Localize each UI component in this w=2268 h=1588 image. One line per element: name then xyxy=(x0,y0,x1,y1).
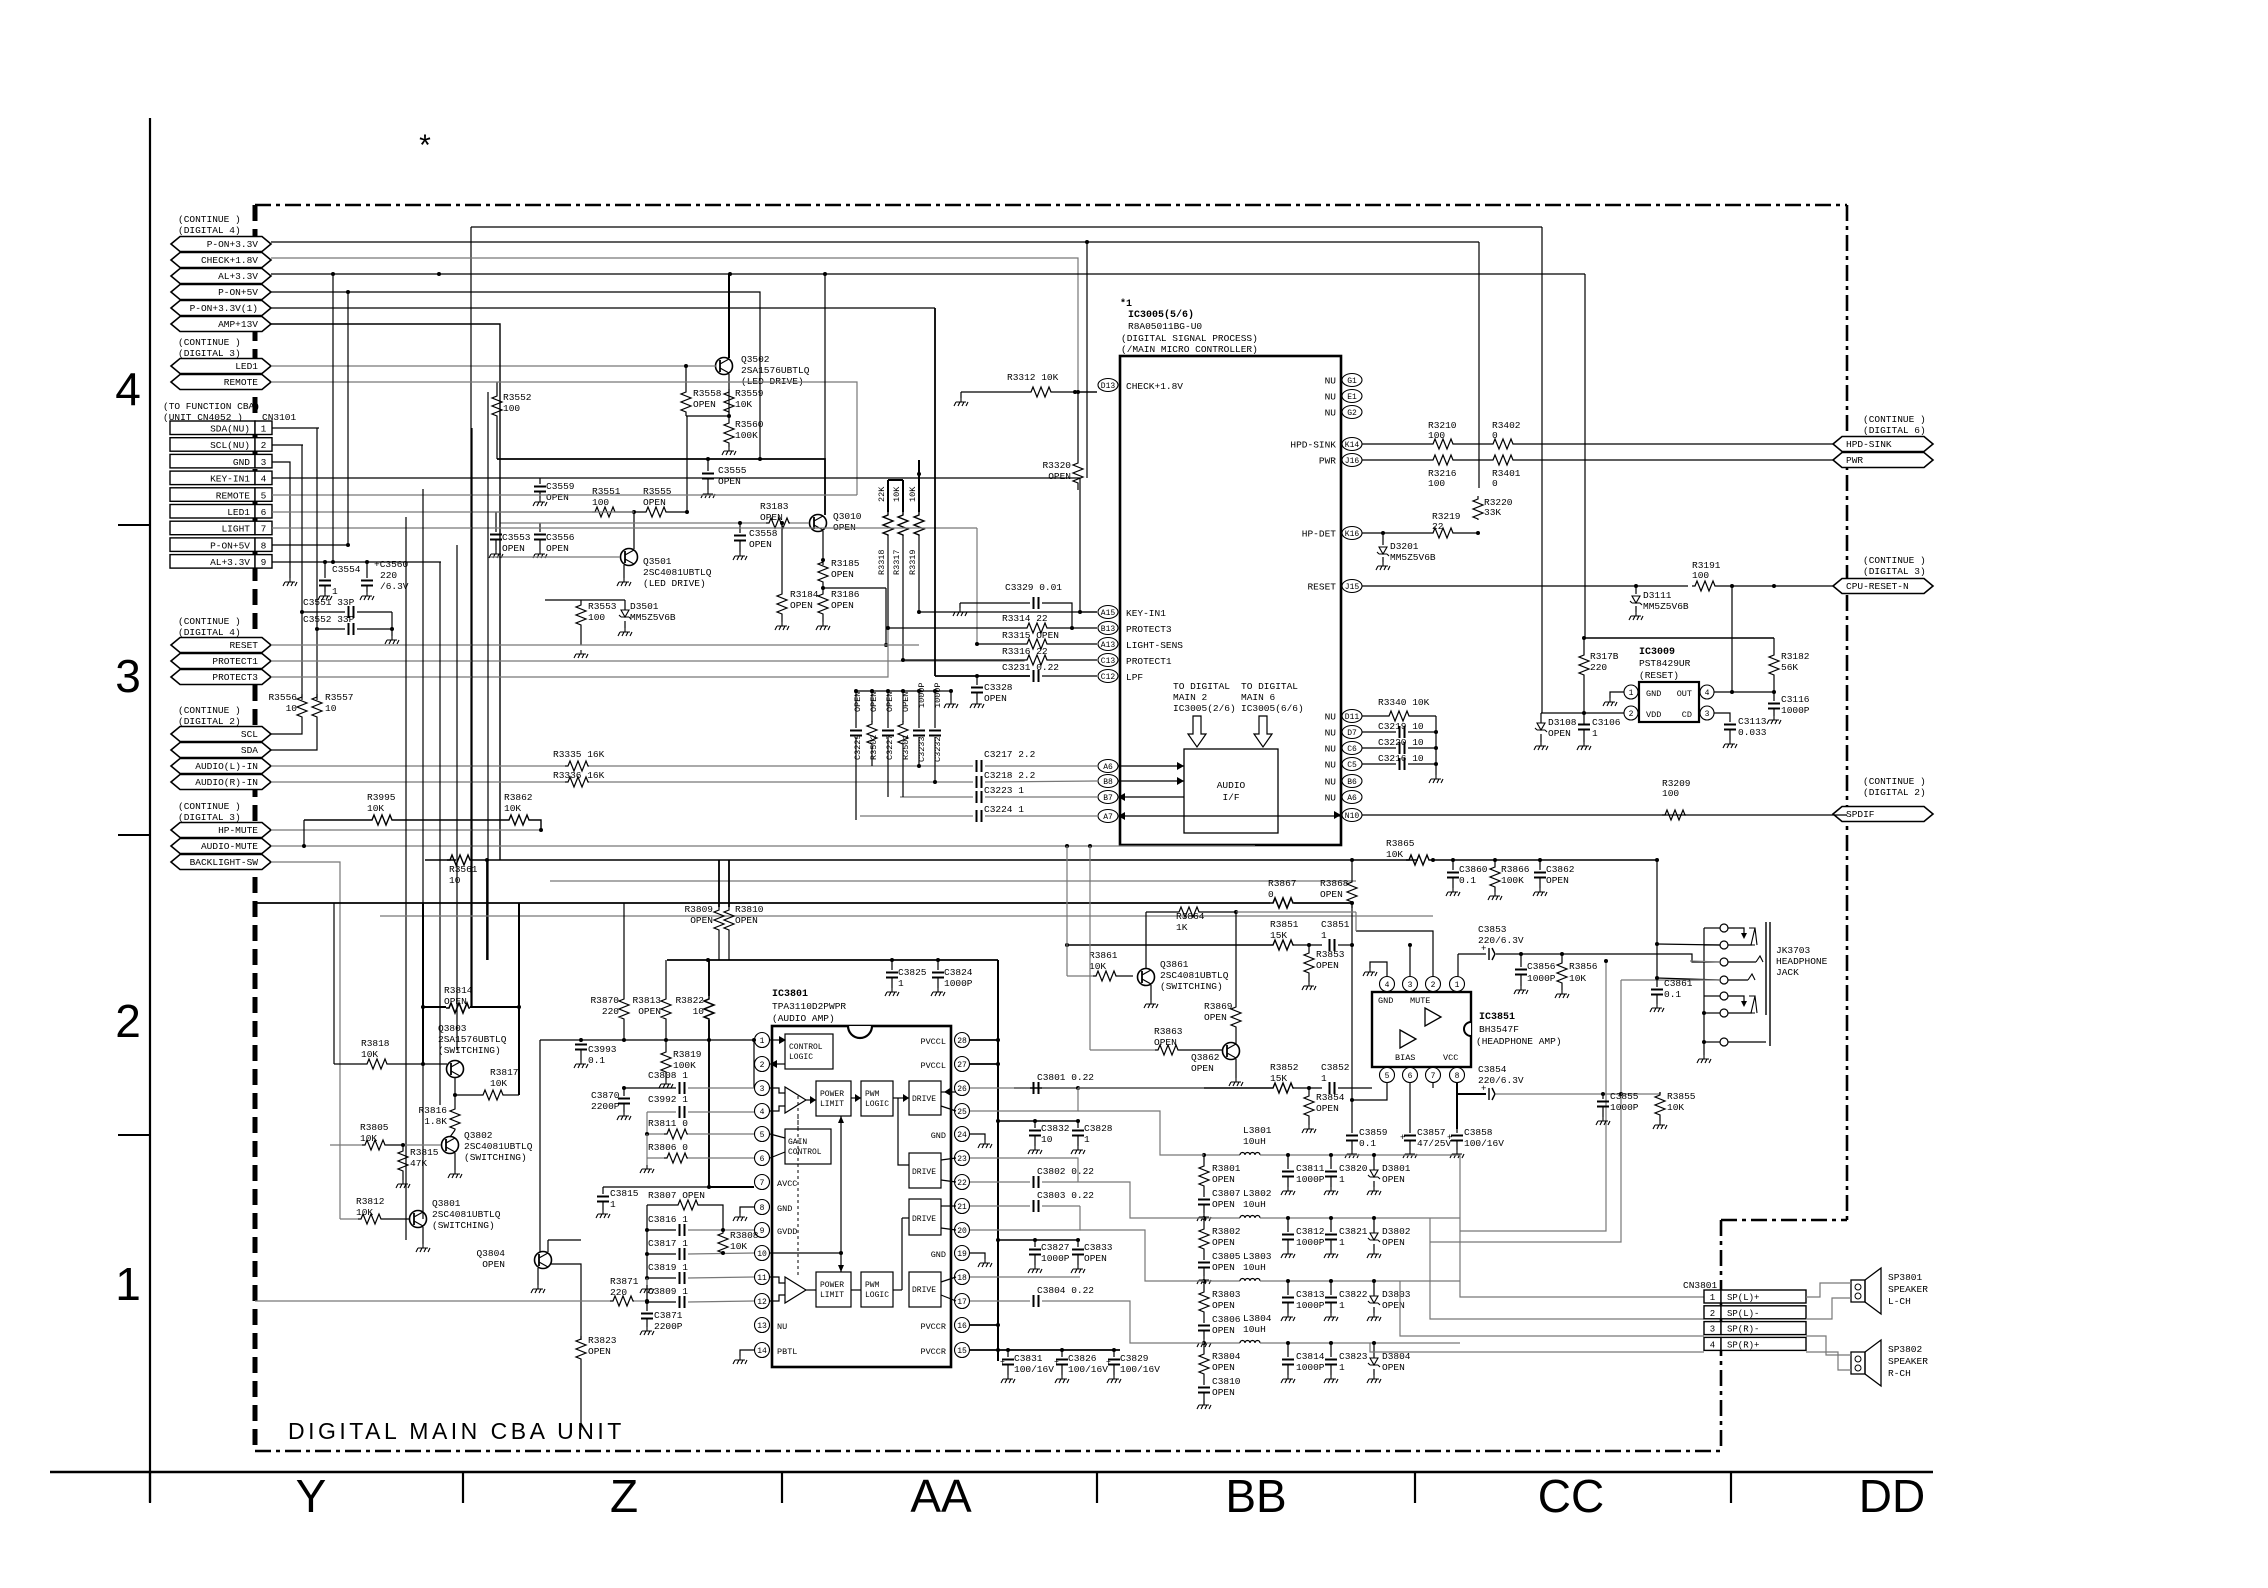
svg-text:OPEN: OPEN xyxy=(1204,1012,1227,1023)
svg-text:E1: E1 xyxy=(1347,393,1357,402)
capacitor C3832 10 and C3828 1 xyxy=(998,1120,1078,1122)
svg-text:C3803 0.22: C3803 0.22 xyxy=(1037,1190,1094,1201)
wire R3558 R3559 join xyxy=(686,415,729,417)
flag LED1 xyxy=(171,359,271,374)
row tick y835 xyxy=(118,834,150,836)
flag AMP+13V xyxy=(171,317,271,332)
svg-text:D3111: D3111 xyxy=(1643,590,1672,601)
svg-text:R3335 16K: R3335 16K xyxy=(553,749,605,760)
wire AL vert x333 xyxy=(332,274,334,562)
unit boundary top dash-dot xyxy=(255,204,1847,207)
svg-text:CHECK+1.8V: CHECK+1.8V xyxy=(201,255,258,266)
svg-text:15K: 15K xyxy=(1270,1073,1287,1084)
svg-text:C3227: C3227 xyxy=(885,734,895,760)
svg-text:IC3009: IC3009 xyxy=(1639,647,1675,658)
svg-text:DD: DD xyxy=(1859,1470,1925,1522)
svg-text:3: 3 xyxy=(1408,981,1413,990)
svg-text:R3318: R3318 xyxy=(877,549,887,575)
svg-text:10: 10 xyxy=(693,1006,705,1017)
svg-text:R3805: R3805 xyxy=(360,1122,389,1133)
svg-text:Q3861: Q3861 xyxy=(1160,959,1189,970)
wire speaker L xyxy=(1806,1283,1851,1297)
svg-text:C3113: C3113 xyxy=(1738,716,1767,727)
svg-text:2: 2 xyxy=(1629,710,1634,719)
svg-text:14: 14 xyxy=(757,1347,767,1356)
svg-text:0.1: 0.1 xyxy=(588,1055,605,1066)
pin 27 IC3801 xyxy=(955,1057,970,1072)
svg-text:2SC4081UBTLQ: 2SC4081UBTLQ xyxy=(432,1209,501,1220)
headphone jack JK3703 xyxy=(1720,924,1728,932)
svg-text:Z: Z xyxy=(610,1470,638,1522)
pin 13 IC3801 xyxy=(755,1318,770,1333)
svg-text:10K: 10K xyxy=(361,1049,378,1060)
svg-text:D3108: D3108 xyxy=(1548,717,1577,728)
pin14 gnd hook xyxy=(740,1350,754,1356)
transistor Q3010 OPEN xyxy=(810,515,827,532)
svg-text:R3561: R3561 xyxy=(449,864,478,875)
svg-text:C3852: C3852 xyxy=(1321,1062,1350,1073)
svg-text:AL+3.3V: AL+3.3V xyxy=(218,271,258,282)
svg-text:100/16V: 100/16V xyxy=(1464,1138,1504,1149)
flag BACKLIGHT-SW xyxy=(171,855,271,870)
svg-text:R3815: R3815 xyxy=(410,1147,439,1158)
svg-text:Q3804: Q3804 xyxy=(476,1248,505,1259)
svg-text:2: 2 xyxy=(1710,1309,1715,1319)
pin 25 IC3801 xyxy=(955,1104,970,1119)
wire P-ON+3.3V drop right xyxy=(1478,242,1480,488)
svg-text:GND: GND xyxy=(1378,996,1393,1006)
svg-text:D3802: D3802 xyxy=(1382,1226,1411,1237)
svg-text:PVCCR: PVCCR xyxy=(920,1322,946,1332)
pin C13 xyxy=(1098,654,1118,667)
svg-text:IC3005(5/6): IC3005(5/6) xyxy=(1128,309,1194,321)
svg-text:C3817 1: C3817 1 xyxy=(648,1238,688,1249)
svg-text:(HEADPHONE AMP): (HEADPHONE AMP) xyxy=(1476,1036,1562,1047)
svg-text:C3801 0.22: C3801 0.22 xyxy=(1037,1072,1094,1083)
svg-text:1: 1 xyxy=(115,1258,141,1310)
svg-text:+C3560: +C3560 xyxy=(374,559,409,570)
svg-text:CD: CD xyxy=(1682,710,1692,720)
svg-text:Q3802: Q3802 xyxy=(464,1130,493,1141)
svg-text:C3823: C3823 xyxy=(1339,1351,1368,1362)
svg-text:C3828: C3828 xyxy=(1084,1123,1113,1134)
wire D13 check xyxy=(1075,391,1097,393)
svg-text:100: 100 xyxy=(1692,570,1709,581)
svg-text:J15: J15 xyxy=(1345,583,1360,592)
flag PROTECT1 xyxy=(171,654,271,669)
pin 28 IC3801 xyxy=(955,1033,970,1048)
svg-text:R3868: R3868 xyxy=(1320,878,1349,889)
svg-text:D13: D13 xyxy=(1101,382,1116,391)
svg-text:+: + xyxy=(1447,1133,1452,1143)
svg-text:9: 9 xyxy=(261,557,267,568)
svg-text:2SC4081UBTLQ: 2SC4081UBTLQ xyxy=(1160,970,1229,981)
block DRIVE 4 xyxy=(909,1272,941,1307)
svg-text:23: 23 xyxy=(957,1155,967,1164)
svg-text:PBTL: PBTL xyxy=(777,1347,797,1357)
block PWM LOGIC lower xyxy=(861,1272,893,1307)
flag PROTECT3 xyxy=(171,670,271,685)
svg-text:(SWITCHING): (SWITCHING) xyxy=(464,1152,527,1163)
svg-text:R3861: R3861 xyxy=(1089,950,1118,961)
svg-text:6: 6 xyxy=(261,507,267,518)
svg-text:10K: 10K xyxy=(908,486,918,502)
svg-text:22K: 22K xyxy=(877,486,887,502)
wire Q3804 collector xyxy=(547,1240,549,1252)
svg-text:C3806: C3806 xyxy=(1212,1314,1241,1325)
ground R3560 xyxy=(728,444,730,447)
wire Q3802 base xyxy=(403,1144,441,1146)
svg-text:LIMIT: LIMIT xyxy=(820,1291,844,1300)
pin N10 right xyxy=(1342,809,1362,822)
svg-text:R3552: R3552 xyxy=(503,392,532,403)
wire AMP+13V bus xyxy=(271,324,500,860)
svg-text:PWR: PWR xyxy=(1846,455,1863,466)
svg-text:2SA1576UBTLQ: 2SA1576UBTLQ xyxy=(438,1034,507,1045)
svg-text:C3558: C3558 xyxy=(749,528,778,539)
svg-text:3: 3 xyxy=(115,650,141,702)
wire CN3101 pin6 LED1 xyxy=(272,511,634,513)
svg-text:10: 10 xyxy=(449,875,461,886)
svg-text:C3860: C3860 xyxy=(1459,864,1488,875)
svg-text:(CONTINUE ): (CONTINUE ) xyxy=(1863,776,1926,787)
svg-text:R3319: R3319 xyxy=(908,549,918,575)
svg-text:C3559: C3559 xyxy=(546,481,575,492)
svg-text:*: * xyxy=(419,129,431,162)
ground Q3862 xyxy=(1235,1059,1237,1078)
svg-text:CC: CC xyxy=(1538,1470,1604,1522)
svg-text:SPEAKER: SPEAKER xyxy=(1888,1284,1928,1295)
IC IC3005 body xyxy=(1120,356,1341,845)
svg-text:TPA3110D2PWPR: TPA3110D2PWPR xyxy=(772,1001,846,1012)
pin 4 IC3009 xyxy=(1700,685,1714,699)
svg-text:1: 1 xyxy=(1321,930,1327,941)
svg-text:220: 220 xyxy=(610,1287,627,1298)
bottom axis line xyxy=(50,1471,1933,1474)
IC IC3851 body xyxy=(1372,992,1471,1067)
svg-text:10uH: 10uH xyxy=(1243,1324,1266,1335)
svg-text:LOGIC: LOGIC xyxy=(865,1291,889,1300)
ground C3551 C3552 xyxy=(391,612,393,636)
pin 24 IC3801 xyxy=(955,1127,970,1142)
svg-text:OPEN: OPEN xyxy=(1212,1174,1235,1185)
svg-text:C3826: C3826 xyxy=(1068,1353,1097,1364)
pin 6 IC3801 xyxy=(755,1151,770,1166)
svg-text:OPEN: OPEN xyxy=(1212,1387,1235,1398)
pin 2 IC3801 xyxy=(755,1057,770,1072)
svg-text:(CONTINUE ): (CONTINUE ) xyxy=(1863,414,1926,425)
wire avcc net from transistors xyxy=(540,1039,709,1041)
svg-text:OPEN: OPEN xyxy=(749,539,772,550)
pin 7 IC3851 xyxy=(1426,1068,1441,1083)
svg-text:(DIGITAL 3): (DIGITAL 3) xyxy=(178,812,241,823)
svg-text:C3804 0.22: C3804 0.22 xyxy=(1037,1285,1094,1296)
pin 17 IC3801 xyxy=(955,1294,970,1309)
svg-text:C3811: C3811 xyxy=(1296,1163,1325,1174)
svg-text:10K: 10K xyxy=(892,486,902,502)
pin B8 left xyxy=(1098,775,1118,788)
amp triangle 2 in IC3851 xyxy=(1400,1030,1416,1048)
wire A7 from audio if xyxy=(1125,815,1278,817)
wire CN3101 pin4 KEY-IN1 xyxy=(272,478,1080,612)
svg-text:OPEN: OPEN xyxy=(1084,1253,1107,1264)
svg-text:1.8K: 1.8K xyxy=(424,1116,447,1127)
svg-text:10K: 10K xyxy=(356,1207,373,1218)
svg-text:OPEN: OPEN xyxy=(502,543,525,554)
svg-text:OPEN: OPEN xyxy=(831,600,854,611)
block CONTROL LOGIC xyxy=(785,1034,833,1069)
svg-text:PWM: PWM xyxy=(865,1090,880,1099)
svg-text:3: 3 xyxy=(1705,710,1710,719)
svg-text:5: 5 xyxy=(261,490,267,501)
transistor Q3803 xyxy=(447,1061,464,1078)
pin 1 IC3851 xyxy=(1450,977,1465,992)
svg-text:1: 1 xyxy=(1339,1362,1345,1373)
svg-text:R3812: R3812 xyxy=(356,1196,385,1207)
svg-text:OPEN: OPEN xyxy=(643,497,666,508)
svg-text:D3804: D3804 xyxy=(1382,1351,1411,1362)
wire SCL vertical x302 xyxy=(301,445,303,700)
wire left bundle x457 xyxy=(456,545,458,1050)
svg-text:1: 1 xyxy=(1455,981,1460,990)
svg-text:MM5Z5V6B: MM5Z5V6B xyxy=(1390,552,1436,563)
svg-text:1: 1 xyxy=(1592,728,1598,739)
svg-text:GND: GND xyxy=(777,1204,792,1214)
svg-text:R3316 22: R3316 22 xyxy=(1002,646,1048,657)
svg-text:OPEN: OPEN xyxy=(831,569,854,580)
svg-text:R3854: R3854 xyxy=(1316,1092,1345,1103)
wire speaker R xyxy=(1806,1336,1851,1355)
svg-text:A13: A13 xyxy=(1101,641,1116,650)
pin 18 IC3801 xyxy=(955,1270,970,1285)
block DRIVE 1 xyxy=(909,1081,941,1115)
svg-text:A6: A6 xyxy=(1347,794,1357,803)
wire SP(R)+ to CN3801 xyxy=(1370,1343,1704,1352)
svg-text:AMP+13V: AMP+13V xyxy=(218,319,258,330)
svg-text:(SWITCHING): (SWITCHING) xyxy=(1160,981,1223,992)
wire AUDIO-MUTE xyxy=(271,845,1255,847)
svg-text:C3833: C3833 xyxy=(1084,1242,1113,1253)
wire SDA vertical x317 xyxy=(316,428,318,700)
pin B6 right xyxy=(1342,775,1362,788)
svg-text:OPEN: OPEN xyxy=(1382,1362,1405,1373)
svg-text:SDA(NU): SDA(NU) xyxy=(210,424,250,435)
row tick y525 xyxy=(118,524,150,526)
wire B7 from audio if xyxy=(1125,796,1184,798)
svg-text:R3871: R3871 xyxy=(610,1276,639,1287)
wire pin1 net xyxy=(646,1039,648,1041)
wire R3556 to SCL flag xyxy=(271,718,302,734)
svg-text:MAIN 2: MAIN 2 xyxy=(1173,692,1208,703)
svg-text:1000P: 1000P xyxy=(1296,1362,1325,1373)
svg-text:C3329 0.01: C3329 0.01 xyxy=(1005,582,1062,593)
svg-text:220: 220 xyxy=(1590,662,1607,673)
svg-text:4: 4 xyxy=(760,1108,765,1117)
svg-text:1: 1 xyxy=(1084,1134,1090,1145)
svg-text:R3185: R3185 xyxy=(831,558,860,569)
connector CN3101 table xyxy=(170,421,255,435)
axis tick x463 xyxy=(462,1472,464,1503)
wire x1732 to reset xyxy=(1731,586,1733,692)
svg-text:(DIGITAL 2): (DIGITAL 2) xyxy=(1863,787,1926,798)
transistor Q3804 OPEN xyxy=(535,1252,552,1269)
pin24 gnd hook xyxy=(970,1134,985,1140)
svg-text:1000P: 1000P xyxy=(1296,1237,1325,1248)
svg-text:R3802: R3802 xyxy=(1212,1226,1241,1237)
flag AUDIO(R)-IN xyxy=(171,775,271,790)
wire OUTL- pin22 to L3802 row xyxy=(1078,1182,1204,1218)
wire audio if to N10 xyxy=(1278,815,1341,817)
svg-text:OPEN: OPEN xyxy=(853,692,863,712)
svg-text:PVCCL: PVCCL xyxy=(920,1061,946,1071)
svg-text:OPEN: OPEN xyxy=(984,693,1007,704)
wire P-ON+5V bus xyxy=(271,292,760,459)
wire OUTL+ pin25 to L3801 row xyxy=(1078,1111,1204,1155)
wire pin1 up xyxy=(1457,954,1459,976)
svg-text:2SC4081UBTLQ: 2SC4081UBTLQ xyxy=(464,1141,533,1152)
svg-text:G2: G2 xyxy=(1347,409,1357,418)
svg-text:AUDIO-MUTE: AUDIO-MUTE xyxy=(201,841,258,852)
svg-text:19: 19 xyxy=(957,1250,967,1259)
svg-text:1: 1 xyxy=(1629,689,1634,698)
svg-text:4: 4 xyxy=(1705,689,1710,698)
svg-text:SP(L)-: SP(L)- xyxy=(1727,1309,1759,1319)
junction bus C3219 group xyxy=(1435,716,1437,775)
svg-text:15: 15 xyxy=(957,1347,967,1356)
svg-text:PROTECT3: PROTECT3 xyxy=(1126,624,1172,635)
svg-text:OPEN: OPEN xyxy=(885,692,895,712)
svg-text:(DIGITAL 3): (DIGITAL 3) xyxy=(1863,566,1926,577)
zener D3201 xyxy=(1382,533,1384,545)
svg-text:0.1: 0.1 xyxy=(1664,989,1681,1000)
wire RESET flag gray xyxy=(271,644,919,646)
transistor Q3501 xyxy=(621,549,638,566)
svg-text:(CONTINUE ): (CONTINUE ) xyxy=(1863,555,1926,566)
svg-text:D7: D7 xyxy=(1347,729,1357,738)
svg-text:R3553: R3553 xyxy=(588,601,617,612)
svg-text:C3807: C3807 xyxy=(1212,1188,1241,1199)
svg-text:C3814: C3814 xyxy=(1296,1351,1325,1362)
transistor Q3801 xyxy=(410,1211,427,1228)
wire CN3101 pin1 SDA xyxy=(272,427,319,429)
svg-text:(CONTINUE ): (CONTINUE ) xyxy=(178,214,241,225)
svg-text:C3856: C3856 xyxy=(1527,961,1556,972)
svg-text:C3815: C3815 xyxy=(610,1188,639,1199)
svg-text:OPEN: OPEN xyxy=(1320,889,1343,900)
svg-text:AVCC: AVCC xyxy=(777,1179,797,1189)
svg-text:9: 9 xyxy=(760,1227,765,1236)
svg-text:L3803: L3803 xyxy=(1243,1251,1272,1262)
svg-text:D3801: D3801 xyxy=(1382,1163,1411,1174)
svg-text:C12: C12 xyxy=(1101,673,1116,682)
block POWER LIMIT upper xyxy=(816,1081,851,1116)
svg-text:J16: J16 xyxy=(1345,457,1360,466)
svg-text:1000P: 1000P xyxy=(1041,1253,1070,1264)
svg-text:KEY-IN1: KEY-IN1 xyxy=(210,474,250,485)
speaker SP3801 xyxy=(1851,1280,1865,1302)
wire c3854 bus stub xyxy=(1621,1093,1660,1095)
svg-text:7: 7 xyxy=(1431,1072,1436,1081)
svg-text:2: 2 xyxy=(115,995,141,1047)
svg-text:Q3801: Q3801 xyxy=(432,1198,461,1209)
svg-text:AUDIO: AUDIO xyxy=(1217,780,1246,791)
pin B7 left xyxy=(1098,791,1118,804)
wire Q3804 to R3823 xyxy=(551,1264,581,1340)
svg-text:VCC: VCC xyxy=(1443,1053,1458,1063)
svg-text:OPEN: OPEN xyxy=(1382,1174,1405,1185)
svg-text:OPEN: OPEN xyxy=(1382,1237,1405,1248)
svg-text:17: 17 xyxy=(957,1298,967,1307)
flag AL+3.3V xyxy=(171,269,271,284)
svg-text:56K: 56K xyxy=(1781,662,1798,673)
svg-text:C3805: C3805 xyxy=(1212,1251,1241,1262)
svg-text:OPEN: OPEN xyxy=(444,996,467,1007)
svg-text:OPEN: OPEN xyxy=(690,915,713,926)
svg-text:8: 8 xyxy=(261,540,267,551)
wire pvcc top to caps xyxy=(667,959,998,961)
pin C6 right xyxy=(1342,742,1362,755)
svg-text:(DIGITAL SIGNAL PROCESS): (DIGITAL SIGNAL PROCESS) xyxy=(1121,333,1258,344)
svg-text:HP-MUTE: HP-MUTE xyxy=(218,825,258,836)
svg-text:220: 220 xyxy=(602,1006,619,1017)
wire CN3101 pin8 P-ON+5V xyxy=(272,544,348,546)
wire AUDIO(R)-IN xyxy=(271,781,565,783)
svg-text:C3819 1: C3819 1 xyxy=(648,1262,688,1273)
svg-text:A7: A7 xyxy=(1103,813,1113,822)
svg-text:C3858: C3858 xyxy=(1464,1127,1493,1138)
wire vdd pin2 xyxy=(1541,712,1624,714)
svg-text:C3231 0.22: C3231 0.22 xyxy=(1002,662,1059,673)
svg-text:(TO FUNCTION CBA): (TO FUNCTION CBA) xyxy=(163,401,260,412)
svg-text:L3801: L3801 xyxy=(1243,1125,1272,1136)
wire cd pin3 xyxy=(1714,713,1730,722)
wire RESET J15 xyxy=(1362,585,1688,587)
pin D11 right xyxy=(1342,710,1362,723)
flag SPDIF xyxy=(1833,807,1933,822)
wire out pin4 xyxy=(1714,691,1774,693)
ground Q3861 xyxy=(1150,985,1152,1000)
flag HPD-SINK right xyxy=(1833,437,1933,452)
wire KEY-IN1 into A15 xyxy=(1080,611,1097,613)
svg-text:1000P: 1000P xyxy=(1781,705,1810,716)
svg-text:Y: Y xyxy=(296,1470,327,1522)
svg-text:2: 2 xyxy=(760,1061,765,1070)
pin A6 right xyxy=(1342,791,1362,804)
pin A7 left xyxy=(1098,810,1118,823)
svg-text:C3861: C3861 xyxy=(1664,978,1693,989)
svg-text:2: 2 xyxy=(1431,981,1436,990)
svg-text:B7: B7 xyxy=(1103,794,1113,803)
svg-text:C3810: C3810 xyxy=(1212,1376,1241,1387)
svg-text:OPEN: OPEN xyxy=(1212,1362,1235,1373)
svg-text:1000P: 1000P xyxy=(944,978,973,989)
svg-text:DRIVE: DRIVE xyxy=(912,1286,936,1295)
svg-text:P-ON+3.3V: P-ON+3.3V xyxy=(207,239,259,250)
pin 11 IC3801 xyxy=(755,1270,770,1285)
svg-text:D3201: D3201 xyxy=(1390,541,1419,552)
svg-text:OPEN: OPEN xyxy=(546,543,569,554)
svg-text:1000P: 1000P xyxy=(1610,1102,1639,1113)
svg-text:GVDD: GVDD xyxy=(777,1227,797,1237)
ground vertical group xyxy=(950,691,952,700)
pin 3 IC3851 xyxy=(1403,977,1418,992)
svg-text:100K: 100K xyxy=(1501,875,1524,886)
svg-text:R3822: R3822 xyxy=(675,995,704,1006)
wire Q3803 emitter xyxy=(454,1077,456,1095)
svg-text:C3853: C3853 xyxy=(1478,924,1507,935)
wire pin6 down xyxy=(1409,1083,1411,1129)
svg-text:IC3851: IC3851 xyxy=(1479,1012,1515,1023)
